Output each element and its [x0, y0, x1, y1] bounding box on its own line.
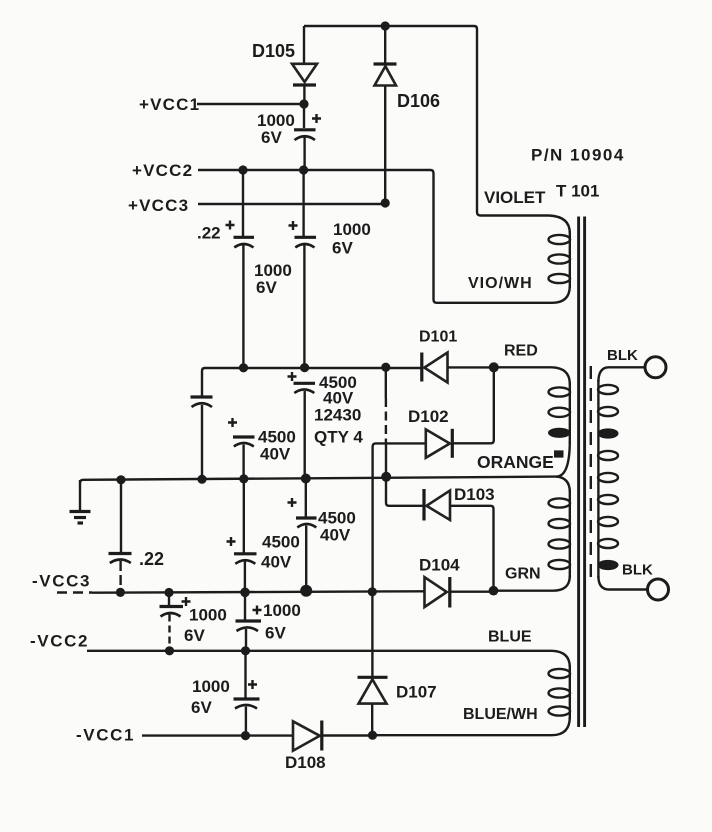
capacitor C11 1000/6V (-VCC3 to -VCC2 second bus)	[236, 592, 262, 650]
phasing square mark ORANGE	[554, 450, 564, 457]
node dot -VCC3 / second bus	[240, 588, 250, 598]
capacitor C2 .22 (second bus, below +VCC2)	[226, 170, 255, 368]
transformer T101 winding ORANGE-GRN	[549, 477, 571, 591]
diode D103	[424, 489, 494, 591]
svg-text:D104: D104	[419, 556, 460, 575]
diode D107	[358, 592, 388, 735]
ground symbol	[70, 480, 91, 523]
electrostatic shield dashed line	[590, 366, 592, 578]
svg-text:BLK: BLK	[607, 347, 638, 364]
svg-text:RED: RED	[504, 343, 538, 360]
wire +VCC3	[198, 203, 385, 205]
svg-text:ORANGE: ORANGE	[477, 452, 554, 472]
node junction dot top bus / D106	[381, 21, 390, 30]
node dot ORANGE rail / D106 bus	[381, 472, 391, 482]
svg-text:6V: 6V	[261, 128, 282, 147]
capacitor C5 4500/40V QTY4 (main bus)	[288, 372, 316, 478]
transformer core lines	[579, 217, 585, 728]
wire -VCC1 rail	[142, 734, 293, 736]
svg-text:D106: D106	[397, 91, 440, 111]
svg-text:40V: 40V	[320, 526, 351, 545]
svg-text:6V: 6V	[265, 624, 286, 643]
svg-text:VIO/WH: VIO/WH	[468, 275, 533, 292]
svg-text:D103: D103	[454, 485, 495, 504]
svg-text:D102: D102	[408, 407, 449, 426]
svg-text:1000: 1000	[189, 606, 227, 625]
svg-text:6V: 6V	[191, 698, 212, 717]
svg-text:P/N 10904: P/N 10904	[531, 146, 625, 165]
wire RED to winding	[494, 366, 552, 368]
wire -VCC2 BLUE rail	[87, 650, 552, 652]
svg-text:D105: D105	[252, 41, 295, 61]
capacitor C1 1000/6V (+VCC1 rail)	[294, 104, 321, 170]
svg-text:BLUE/WH: BLUE/WH	[463, 706, 538, 723]
wire -VCC1 BLUE/WH to winding	[373, 734, 553, 736]
capacitor C4 (unlabeled, x=202)	[191, 397, 213, 479]
node dot RED / main bus	[300, 363, 309, 372]
node dot RED / D102 link	[489, 362, 499, 372]
capacitor C7 .22 (gnd to -VCC3)	[109, 480, 132, 593]
node +VCC1 junction	[299, 99, 308, 108]
node dot -VCC2 / second bus	[241, 646, 250, 655]
svg-text:GRN: GRN	[505, 566, 541, 583]
node dot +VCC3 / D106 bus	[381, 198, 390, 207]
node dot gnd / second bus	[239, 474, 248, 483]
wire top bus from D105 to transformer primary top	[304, 26, 549, 216]
wire GRN to winding	[494, 590, 553, 592]
svg-text:D101: D101	[419, 329, 457, 346]
svg-text:BLUE: BLUE	[488, 629, 532, 646]
wire -VCC3 rail dashed left end	[57, 591, 92, 593]
svg-text:+VCC2: +VCC2	[132, 161, 193, 180]
capacitor C3 1000/6V (main bus, below +VCC2)	[289, 170, 317, 368]
node dot RED / D106 bus	[381, 363, 390, 372]
svg-text:BLK: BLK	[622, 562, 653, 579]
svg-text:+VCC3: +VCC3	[128, 196, 189, 215]
node dot -VCC2 / C10	[165, 646, 174, 655]
diode D105	[292, 26, 317, 104]
transformer T101 winding RED-ORANGE	[549, 367, 571, 476]
node dot -VCC1 / D107 bus	[368, 731, 377, 740]
svg-text:T 101: T 101	[556, 182, 599, 201]
svg-text:-VCC1: -VCC1	[76, 726, 135, 745]
terminal BLK bottom	[609, 579, 669, 600]
transformer T101 winding BLUE-BLUE/WH	[549, 651, 571, 735]
node dot -VCC3 / main bus	[300, 585, 312, 597]
svg-text:.22: .22	[139, 549, 164, 569]
wire +VCC1	[197, 103, 304, 105]
transformer secondary winding BLK-BLK	[598, 367, 618, 589]
svg-text:D108: D108	[285, 753, 326, 772]
svg-text:1000: 1000	[263, 601, 301, 620]
diode D106	[374, 26, 397, 203]
svg-text:40V: 40V	[261, 553, 292, 572]
svg-text:D107: D107	[396, 683, 437, 702]
svg-text:40V: 40V	[260, 445, 291, 464]
wire RED rail	[202, 368, 422, 396]
node dot +VCC2 / second bus	[238, 165, 247, 174]
svg-text:-VCC3: -VCC3	[32, 572, 91, 591]
svg-text:1000: 1000	[333, 220, 371, 239]
svg-text:6V: 6V	[184, 626, 205, 645]
svg-text:+VCC1: +VCC1	[139, 95, 200, 114]
capacitor C10 1000/6V (-VCC3 to -VCC2)	[160, 593, 191, 651]
node dot gnd / main bus	[301, 474, 311, 484]
capacitor C6 4500/40V (second bus)	[228, 418, 255, 479]
svg-text:12430: 12430	[314, 406, 361, 425]
svg-text:QTY 4: QTY 4	[314, 428, 363, 447]
capacitor C9 4500/40V (second bus gnd to -VCC3)	[227, 479, 257, 593]
diode D101	[422, 353, 494, 383]
capacitor C8 4500/40V (main bus gnd to -VCC3)	[288, 479, 317, 591]
svg-text:6V: 6V	[256, 278, 277, 297]
wire +VCC2 rail to VIO/WH winding	[198, 170, 552, 303]
diode D104	[425, 577, 494, 608]
wire -VCC3 rail	[92, 591, 425, 592]
capacitor C12 1000/6V (-VCC2 to -VCC1)	[234, 651, 260, 736]
diode D102	[373, 367, 494, 592]
svg-text:-VCC2: -VCC2	[30, 632, 89, 651]
diode D108	[293, 721, 373, 751]
node dot GRN junction	[489, 586, 499, 596]
wire ground ORANGE rail	[80, 477, 556, 483]
node dot -VCC3 / D107 bus	[368, 587, 377, 596]
node dot gnd / C4 bus	[197, 475, 206, 484]
node dot RED / second bus	[239, 363, 248, 372]
node dot -VCC1 / second bus	[241, 731, 250, 740]
node dot +VCC2 / main bus	[299, 165, 308, 174]
terminal BLK top	[608, 357, 666, 378]
svg-text:6V: 6V	[332, 239, 353, 258]
transformer T101 primary winding VIOLET-VIO/WH	[549, 216, 571, 303]
node dot gnd / .22 bus	[116, 475, 125, 484]
node dot -VCC3 / C10	[164, 588, 173, 597]
svg-text:1000: 1000	[192, 677, 230, 696]
svg-text:4500: 4500	[262, 533, 300, 552]
svg-text:.22: .22	[197, 224, 221, 243]
wire D106 bus RED to ORANGE to D103	[385, 367, 387, 398]
node dot -VCC3 / .22 bus	[116, 588, 125, 597]
svg-text:VIOLET: VIOLET	[484, 188, 546, 207]
